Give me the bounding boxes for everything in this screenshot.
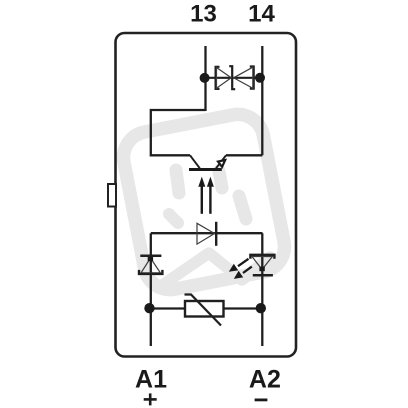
case tab	[108, 184, 116, 207]
svg-text:A1: A1	[135, 365, 167, 393]
LED emission arrow 1	[229, 259, 249, 272]
bottom rail right wire	[224, 307, 263, 309]
svg-text:13: 13	[190, 1, 217, 28]
diode D1 (series, on top wire)	[197, 222, 216, 246]
varistor RV1 strike	[185, 295, 222, 326]
svg-text:14: 14	[248, 1, 275, 28]
phototransistor T1 collector slant	[190, 155, 200, 168]
svg-text:A2: A2	[249, 365, 281, 393]
phototransistor T1 collector wire	[151, 110, 206, 155]
diode D2 (left, pointing up)	[139, 256, 162, 274]
phototransistor T1 base bar	[189, 168, 222, 171]
right branch wire	[261, 233, 263, 346]
light arrow 1 into base	[198, 177, 205, 214]
node 14 junction dot	[255, 73, 265, 83]
wire from terminal 13	[204, 46, 206, 111]
lower loop top wire	[151, 232, 263, 234]
case outline	[116, 33, 297, 357]
node 13 junction dot	[200, 73, 210, 83]
phototransistor T1 emitter slant with arrow	[216, 155, 226, 168]
varistor RV1 body	[185, 301, 224, 317]
light arrow 2 into base	[207, 177, 214, 214]
LED D3 (right, pointing down)	[250, 255, 274, 275]
wire from terminal 14	[261, 46, 263, 155]
minus sign	[255, 398, 268, 401]
background watermark logo	[119, 110, 289, 294]
TVS suppressor wire	[206, 77, 261, 79]
bottom rail left wire	[151, 307, 185, 309]
phototransistor T1 emitter wire	[226, 154, 262, 156]
node A2 junction dot	[256, 303, 266, 313]
node A1 junction dot	[144, 303, 154, 313]
plus sign	[144, 393, 157, 405]
left branch wire	[150, 233, 152, 346]
TVS suppressor Z1 (bidirectional)	[216, 66, 254, 89]
LED emission arrow 2	[234, 267, 252, 279]
